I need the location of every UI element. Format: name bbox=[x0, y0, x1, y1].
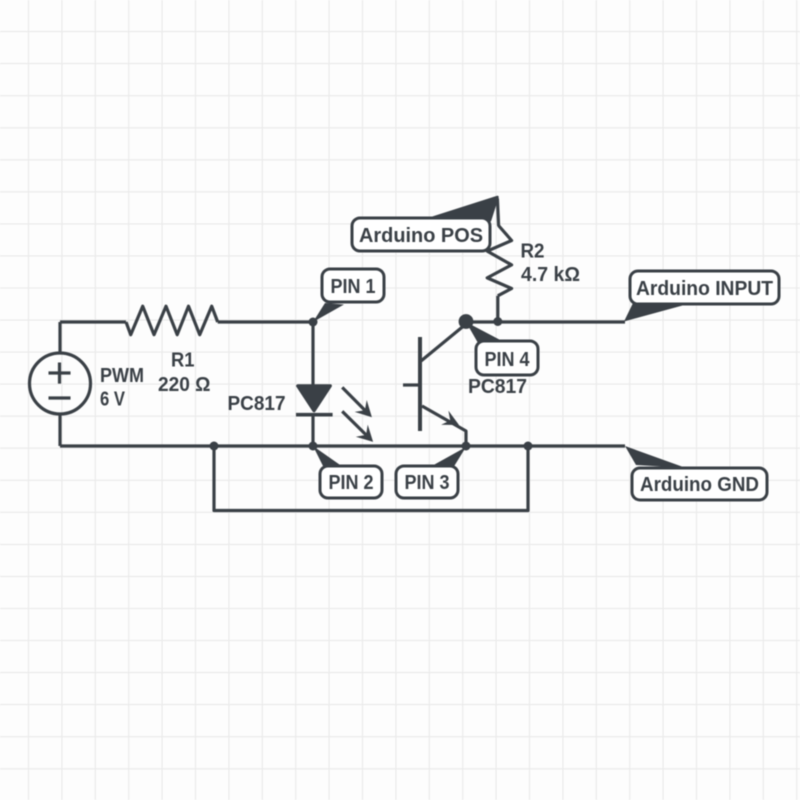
wire: source bottom lead bbox=[58, 414, 61, 446]
Arduino GND callout tail bbox=[625, 446, 686, 468]
svg-text:220 Ω: 220 Ω bbox=[158, 373, 211, 396]
transistor emitter lead bbox=[422, 406, 466, 446]
wire: lower loop rectangle bbox=[214, 446, 528, 511]
transistor base stub bbox=[403, 383, 420, 386]
light arrow 1 bbox=[342, 387, 372, 417]
junction node: lower-left rect tap bbox=[210, 442, 219, 451]
svg-text:Arduino GND: Arduino GND bbox=[640, 473, 759, 496]
junction node: lower-right rect tap bbox=[524, 442, 533, 451]
svg-text:PC817: PC817 bbox=[228, 392, 286, 415]
PIN 2 callout tail bbox=[313, 446, 343, 468]
PIN 3 label box bbox=[396, 466, 458, 498]
junction node: collector / PIN 4 (large) bbox=[459, 314, 474, 329]
junction node: PIN 1 bbox=[309, 318, 318, 327]
junction node: R2 bottom bbox=[493, 317, 502, 326]
resistor R2 lead bottom bbox=[496, 296, 499, 322]
svg-text:R2: R2 bbox=[521, 240, 545, 263]
wire: source top lead bbox=[58, 322, 61, 353]
junction node: LED cathode / PIN 2 bbox=[309, 442, 318, 451]
Arduino GND label box bbox=[632, 468, 767, 500]
junction node: emitter / PIN 3 bbox=[462, 442, 471, 451]
PIN 3 callout tail bbox=[430, 447, 466, 468]
svg-text:PIN 3: PIN 3 bbox=[405, 471, 450, 494]
PIN 1 callout tail bbox=[313, 303, 344, 322]
wire: top-left horizontal to R1 bbox=[60, 320, 126, 323]
svg-text:PWM: PWM bbox=[100, 364, 144, 387]
PIN 1 label box bbox=[322, 269, 384, 302]
PIN 4 callout tail bbox=[466, 322, 504, 343]
LED diode of PC817 bbox=[296, 386, 333, 415]
PIN 2 label box bbox=[320, 466, 382, 498]
emitter arrowhead bbox=[441, 411, 459, 425]
svg-text:PIN 1: PIN 1 bbox=[331, 275, 376, 298]
svg-text:PC817: PC817 bbox=[468, 375, 527, 398]
wire: LED cathode vertical bbox=[311, 415, 314, 446]
wire: bottom horizontal rail bbox=[60, 444, 625, 447]
svg-text:R1: R1 bbox=[171, 349, 195, 372]
svg-text:Arduino INPUT: Arduino INPUT bbox=[636, 277, 773, 300]
PIN 4 label box bbox=[476, 341, 538, 375]
wire: LED anode vertical bbox=[311, 322, 314, 386]
svg-text:Arduino POS: Arduino POS bbox=[359, 224, 483, 247]
voltage source V1 bbox=[30, 353, 91, 414]
svg-text:6 V: 6 V bbox=[100, 388, 125, 411]
Arduino INPUT label box bbox=[630, 271, 779, 304]
Arduino POS flag arrow bbox=[426, 197, 498, 221]
light arrow 2 bbox=[342, 411, 373, 442]
transistor Q1 body bar bbox=[418, 337, 422, 431]
svg-text:PIN 2: PIN 2 bbox=[329, 471, 374, 494]
Arduino INPUT callout tail bbox=[624, 303, 688, 322]
Arduino POS label box bbox=[352, 218, 490, 251]
resistor R2 lead top bbox=[497, 198, 498, 226]
svg-text:PIN 4: PIN 4 bbox=[485, 348, 531, 371]
svg-text:4.7 kΩ: 4.7 kΩ bbox=[521, 263, 580, 286]
resistor R2 bbox=[487, 226, 511, 296]
resistor R1 bbox=[126, 306, 218, 335]
transistor collector lead bbox=[421, 324, 466, 361]
wire: R1 to PIN1 node bbox=[218, 320, 313, 323]
wire: collector node to INPUT bbox=[466, 320, 625, 323]
